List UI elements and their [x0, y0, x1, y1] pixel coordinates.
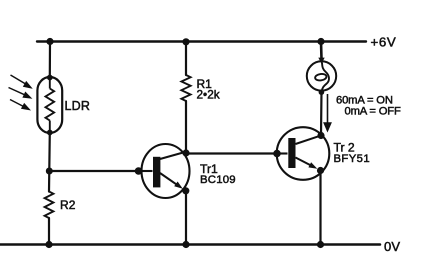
node bottom rail / Tr2 emitter branch: [317, 241, 324, 248]
light arrows into LDR: [9, 75, 31, 109]
resistor R2: [45, 192, 54, 219]
svg-text:R2: R2: [60, 198, 76, 212]
node LDR top terminal: [47, 75, 53, 81]
svg-text:LDR: LDR: [65, 99, 91, 113]
wire right branch upper (rail to lamp): [320, 42, 323, 60]
svg-text:+6V: +6V: [371, 35, 397, 50]
transistor Tr1 (BC109): [138, 144, 190, 198]
lamp: [307, 61, 336, 91]
wire left branch lower (R2 to 0V): [48, 218, 50, 245]
svg-text:BC109: BC109: [200, 174, 236, 186]
wire +6V top rail: [37, 40, 366, 42]
wire left branch mid (LDR to base node): [48, 132, 51, 192]
arrowhead wire into lamp: [318, 58, 324, 64]
wire Tr2 emitter to 0V: [319, 171, 321, 245]
node Tr1 base tee on left branch: [46, 168, 53, 175]
wire left branch upper (rail to LDR): [49, 42, 51, 79]
wire lamp to Tr2 collector: [320, 91, 323, 136]
wire Tr1 base (from LDR/R2 node): [49, 170, 138, 172]
svg-text:2•2k: 2•2k: [197, 88, 220, 102]
node LDR bottom terminal: [47, 130, 53, 136]
node Tr1 emitter junction: [182, 187, 189, 194]
node Tr1 collector junction: [182, 149, 189, 156]
wire middle branch (R1 to Tr1 collector): [185, 101, 187, 154]
svg-text:0mA = OFF: 0mA = OFF: [345, 106, 401, 118]
node bottom rail / R2 branch: [45, 241, 52, 248]
node bottom rail / Tr1 emitter branch: [182, 241, 189, 248]
node Tr1 base: [135, 167, 143, 175]
node top rail / LDR branch: [46, 38, 53, 45]
wire middle branch upper (rail to R1): [185, 42, 187, 76]
node Tr2 base: [273, 150, 281, 158]
node lamp bottom terminal: [319, 89, 325, 95]
node top rail / R1 branch: [182, 38, 189, 45]
node Tr2 collector junction: [317, 132, 324, 139]
transistor Tr2 (BFY51): [277, 127, 330, 180]
node Tr2 emitter junction: [317, 167, 324, 174]
wire Tr1 collector to Tr2 base: [186, 152, 277, 154]
wire 0V bottom rail: [0, 243, 380, 246]
resistor R1: [181, 75, 190, 101]
LDR (light dependent resistor): [37, 77, 62, 133]
svg-text:0V: 0V: [384, 239, 400, 254]
node top rail / lamp branch: [317, 38, 324, 45]
svg-text:BFY51: BFY51: [334, 153, 371, 165]
wire middle branch lower (Tr1 emitter to 0V): [185, 191, 187, 245]
current direction arrow: [324, 94, 330, 131]
